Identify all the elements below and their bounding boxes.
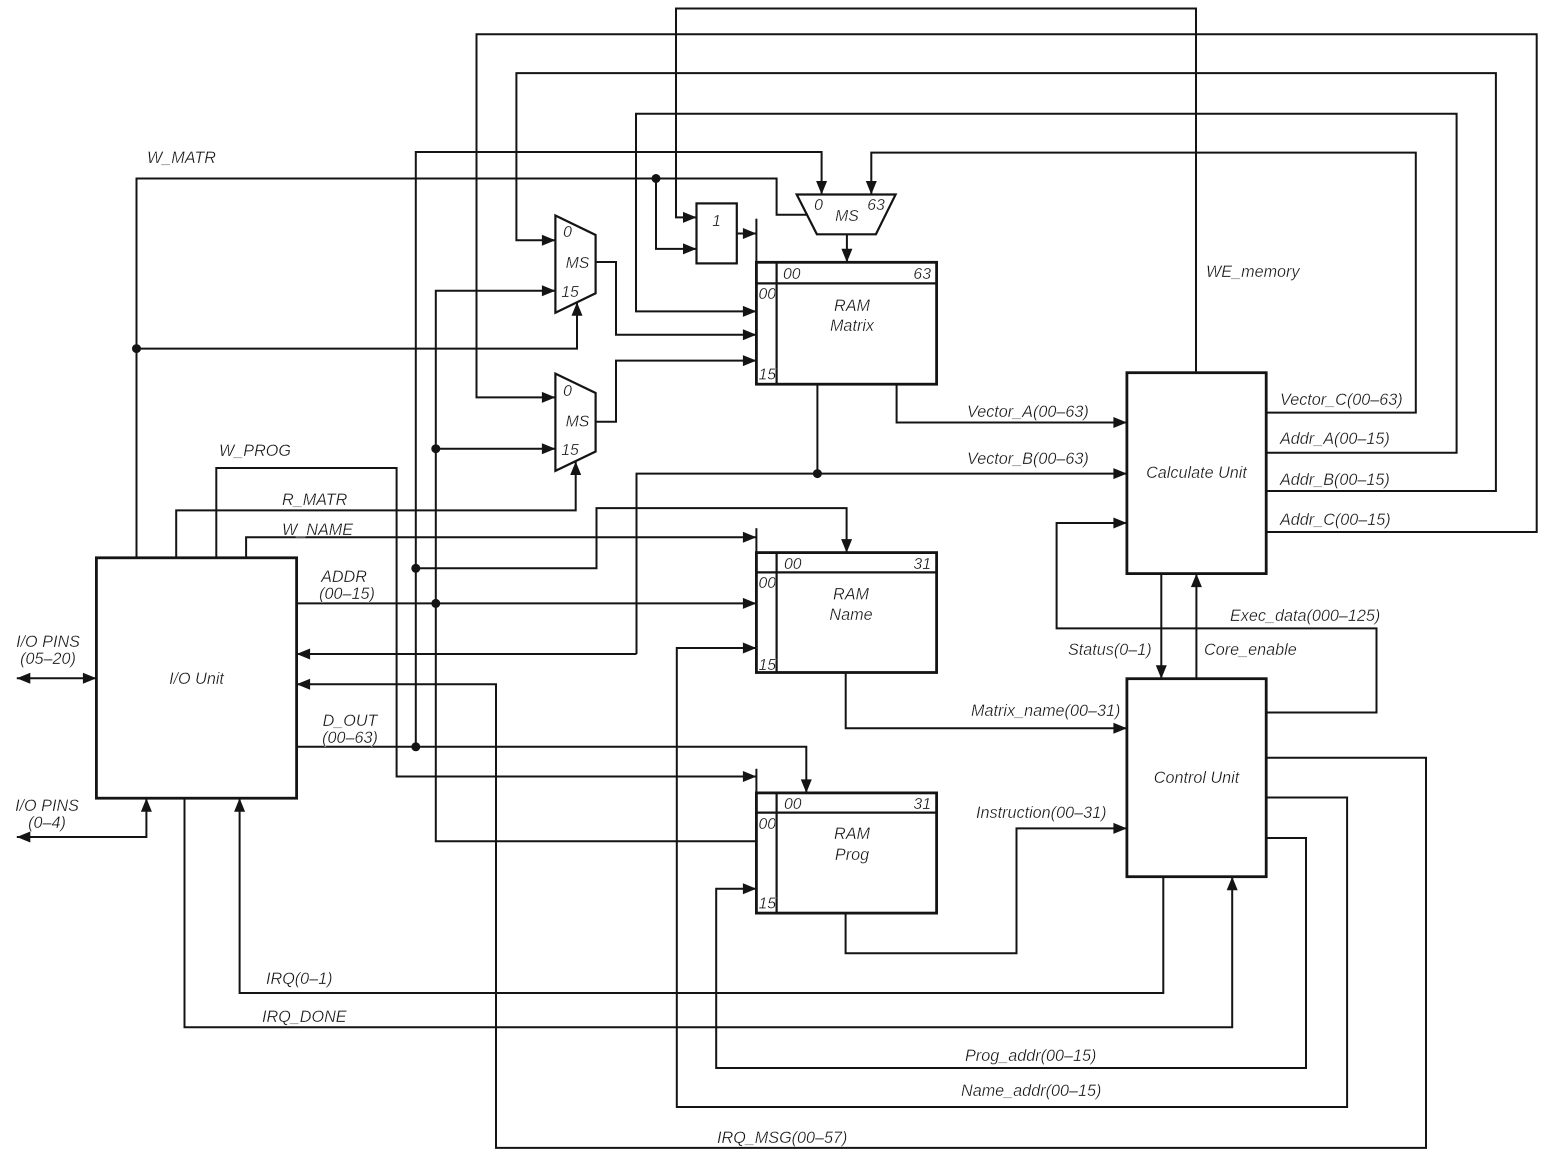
svg-text:W_PROG: W_PROG [219, 442, 291, 460]
wire Vector_C: Calculate Unit to MS3 input 63 [866, 153, 1416, 413]
wire W_MATR branch to delay block input 2 [656, 179, 697, 255]
wire Status(0-1): Calculate Unit to Control Unit [1156, 574, 1167, 679]
svg-text:R_MATR: R_MATR [282, 491, 348, 509]
wire Name_addr: Control Unit to RAM Name address [677, 643, 1347, 1108]
svg-text:Calculate Unit: Calculate Unit [1146, 464, 1248, 482]
wire MS1 output to RAM Matrix address 2 [596, 262, 757, 340]
svg-text:IRQ_DONE: IRQ_DONE [262, 1008, 347, 1026]
wire WE_memory: Calculate Unit top to delay block input 1 [676, 9, 1196, 373]
svg-text:RAM: RAM [833, 586, 869, 604]
svg-text:W_NAME: W_NAME [282, 521, 353, 539]
wire ADDR: I/O Unit to RAM Name address [297, 598, 757, 609]
svg-text:D_OUT: D_OUT [323, 712, 379, 730]
wire IRQ_MSG: Control Unit to I/O Unit [297, 679, 1426, 1148]
svg-text:Vector_B(00–63): Vector_B(00–63) [967, 450, 1089, 468]
svg-text:00: 00 [783, 266, 801, 283]
svg-text:1: 1 [712, 213, 721, 230]
wire W_PROG: I/O Unit to RAM Prog write stub [216, 468, 756, 793]
svg-text:Addr_B(00–15): Addr_B(00–15) [1279, 471, 1390, 489]
svg-text:Matrix: Matrix [830, 317, 875, 335]
wire Core_enable: Control Unit to Calculate Unit [1191, 574, 1202, 679]
wire Instruction: RAM Prog to Control Unit [846, 823, 1127, 953]
wire W_NAME: I/O Unit to RAM Name write stub [246, 528, 756, 558]
svg-text:Control Unit: Control Unit [1154, 769, 1241, 787]
svg-text:(05–20): (05–20) [20, 650, 76, 668]
svg-text:00: 00 [759, 816, 777, 833]
wire I/O PINS (05-20) bidirectional [17, 673, 97, 684]
wire ADDR branch: vertical bus to MS1 15 and RAM Prog address [436, 285, 757, 841]
svg-text:Vector_C(00–63): Vector_C(00–63) [1280, 391, 1403, 409]
svg-text:15: 15 [561, 442, 579, 459]
svg-text:Instruction(00–31): Instruction(00–31) [976, 804, 1106, 822]
wire MS3 output to RAM Matrix data [841, 234, 852, 262]
RAM Name U5 [756, 553, 936, 674]
svg-text:Matrix_name(00–31): Matrix_name(00–31) [971, 702, 1120, 720]
svg-text:(00–63): (00–63) [322, 729, 378, 747]
svg-text:31: 31 [913, 796, 931, 813]
wire I/O PINS (0-4) [17, 798, 152, 842]
svg-text:15: 15 [759, 657, 777, 674]
wire MS2 output to RAM Matrix address 3 [596, 355, 757, 422]
svg-text:MS: MS [835, 208, 859, 225]
node Vector_B junction G [813, 469, 822, 478]
svg-text:Addr_C(00–15): Addr_C(00–15) [1279, 511, 1391, 529]
svg-text:RAM: RAM [834, 825, 870, 843]
wire W_MATR branch to MS1 select [137, 302, 583, 348]
wire Addr_C: Calculate Unit to MS2 input 0 [477, 34, 1537, 532]
wire IRQ(0-1): Control Unit to I/O Unit [234, 798, 1163, 993]
wire Exec_data: Control Unit to Calculate Unit [1057, 518, 1377, 713]
svg-text:IRQ_MSG(00–57): IRQ_MSG(00–57) [717, 1129, 847, 1147]
svg-text:Name: Name [829, 606, 872, 624]
svg-text:WE_memory: WE_memory [1206, 263, 1300, 281]
svg-text:63: 63 [867, 197, 885, 214]
RAM Matrix U4 [756, 262, 936, 384]
svg-text:I/O Unit: I/O Unit [169, 670, 225, 688]
svg-text:00: 00 [784, 556, 802, 573]
svg-text:Exec_data(000–125): Exec_data(000–125) [1230, 607, 1380, 625]
wire IRQ_DONE: I/O Unit to Control Unit [185, 798, 1238, 1027]
svg-text:31: 31 [913, 556, 931, 573]
svg-text:I/O PINS: I/O PINS [15, 797, 79, 815]
svg-text:Addr_A(00–15): Addr_A(00–15) [1279, 430, 1390, 448]
svg-text:15: 15 [561, 284, 579, 301]
I/O Unit U1 [96, 558, 296, 798]
svg-text:I/O PINS: I/O PINS [16, 633, 80, 651]
wire delay block output to RAM Matrix write stub [737, 219, 757, 263]
svg-text:MS: MS [566, 414, 590, 431]
svg-text:RAM: RAM [834, 297, 870, 315]
wire D_OUT branch to MS3 input 0 [416, 152, 827, 747]
multiplexer MS3 (top) [797, 195, 896, 235]
svg-text:MS: MS [566, 255, 590, 272]
Calculate Unit U2 [1127, 373, 1266, 574]
wire R_MATR: I/O Unit to MS2 select [176, 462, 581, 558]
wire Vector_A: RAM Matrix to Calculate Unit [897, 384, 1127, 428]
svg-text:Prog: Prog [835, 846, 869, 864]
svg-text:00: 00 [784, 796, 802, 813]
wire Addr_B: Calculate Unit to MS1 input 0 [516, 73, 1496, 491]
svg-text:Name_addr(00–15): Name_addr(00–15) [961, 1082, 1101, 1100]
svg-text:Vector_A(00–63): Vector_A(00–63) [967, 403, 1089, 421]
svg-text:ADDR: ADDR [320, 568, 367, 586]
node ADDR junction E [431, 599, 440, 608]
node D_OUT junction D [411, 564, 420, 573]
Control Unit U3 [1127, 679, 1266, 877]
delay block 1 (U7) [697, 203, 737, 263]
node W_MATR junction A [132, 344, 141, 353]
wire Addr_A: Calculate Unit to RAM Matrix address 1 [636, 114, 1457, 453]
multiplexer MS1 (upper left) [555, 216, 595, 313]
wire W_MATR: I/O Unit to MS3 select [137, 179, 809, 558]
wire Vector_B: RAM Matrix to Calculate Unit and I/O Unit [297, 384, 1127, 659]
wire D_OUT: I/O Unit to RAM Prog data input [297, 747, 812, 793]
wire Prog_addr: Control Unit to RAM Prog address [716, 838, 1306, 1068]
svg-text:00: 00 [759, 575, 777, 592]
node ADDR junction F [431, 444, 440, 453]
node D_OUT junction C [411, 742, 420, 751]
svg-text:15: 15 [759, 896, 777, 913]
svg-text:W_MATR: W_MATR [147, 149, 216, 167]
svg-text:0: 0 [563, 383, 572, 400]
wire Matrix_name: RAM Name to Control Unit [846, 673, 1127, 734]
svg-text:0: 0 [563, 224, 572, 241]
svg-text:0: 0 [814, 197, 823, 214]
multiplexer MS2 (lower left) [555, 374, 595, 471]
svg-text:IRQ(0–1): IRQ(0–1) [266, 970, 333, 988]
svg-text:Prog_addr(00–15): Prog_addr(00–15) [965, 1047, 1096, 1065]
svg-text:(00–15): (00–15) [319, 585, 375, 603]
svg-text:63: 63 [913, 266, 931, 283]
svg-text:15: 15 [759, 367, 777, 384]
wire D_OUT branch to RAM Name data input [416, 508, 852, 568]
svg-text:Status(0–1): Status(0–1) [1068, 641, 1152, 659]
node W_MATR junction B [652, 174, 661, 183]
svg-text:(0–4): (0–4) [28, 814, 66, 832]
wire ADDR branch to MS2 15 [436, 443, 556, 454]
svg-text:00: 00 [759, 286, 777, 303]
RAM Prog U6 [756, 793, 936, 913]
svg-text:Core_enable: Core_enable [1204, 641, 1297, 659]
